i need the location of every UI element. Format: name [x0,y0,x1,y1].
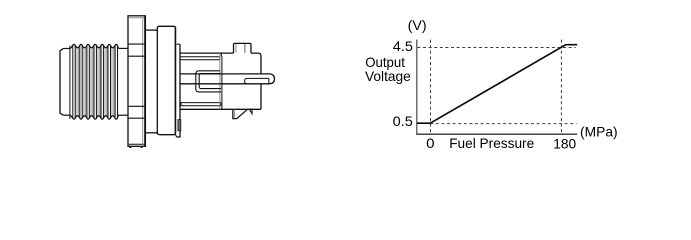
dashed vertical at 0 MPa [430,40,432,134]
connector neck strip [176,44,181,137]
svg-text:Output: Output [365,55,405,70]
svg-text:0: 0 [426,136,435,151]
svg-text:0.5: 0.5 [393,114,414,129]
sensor housing cylinder [157,26,175,134]
svg-text:(MPa): (MPa) [580,124,618,139]
terminal socket (double-walled) [196,71,221,92]
lock arm top and bottom lines [180,74,274,84]
connector lower gray rib [178,120,181,131]
thread bottom crest zigzag [71,115,119,119]
connector shroud inner bottom bar [180,103,221,106]
mounting foot bracket [233,109,248,118]
thread top crest zigzag [71,45,119,49]
graph y-axis [416,40,418,135]
dashed horizontal at 4.5 V [417,47,575,49]
small guide tooth [249,109,252,113]
connector body outline [180,52,261,109]
svg-text:Voltage: Voltage [365,69,411,84]
thread shading stripes [76,47,119,117]
sensor unthreaded shank [119,48,128,115]
svg-text:Fuel Pressure: Fuel Pressure [449,136,534,151]
lock arm slot [245,78,269,83]
svg-text:4.5: 4.5 [393,39,414,54]
graph x-axis [416,133,577,135]
connector shroud inner top lines [180,57,219,60]
svg-text:(V): (V) [408,18,427,33]
thread flank lines [73,46,118,118]
sensor washer section [146,30,157,133]
sensor threaded end collar [60,46,71,119]
dashed vertical at 180 MPa [560,40,562,134]
connector front wall [220,53,222,109]
connector top tab [234,43,252,53]
output characteristic curve [417,45,577,124]
sensor hex flange disc [128,16,145,148]
dashed horizontal at 0.5 V [430,123,576,125]
svg-text:180: 180 [553,136,576,151]
